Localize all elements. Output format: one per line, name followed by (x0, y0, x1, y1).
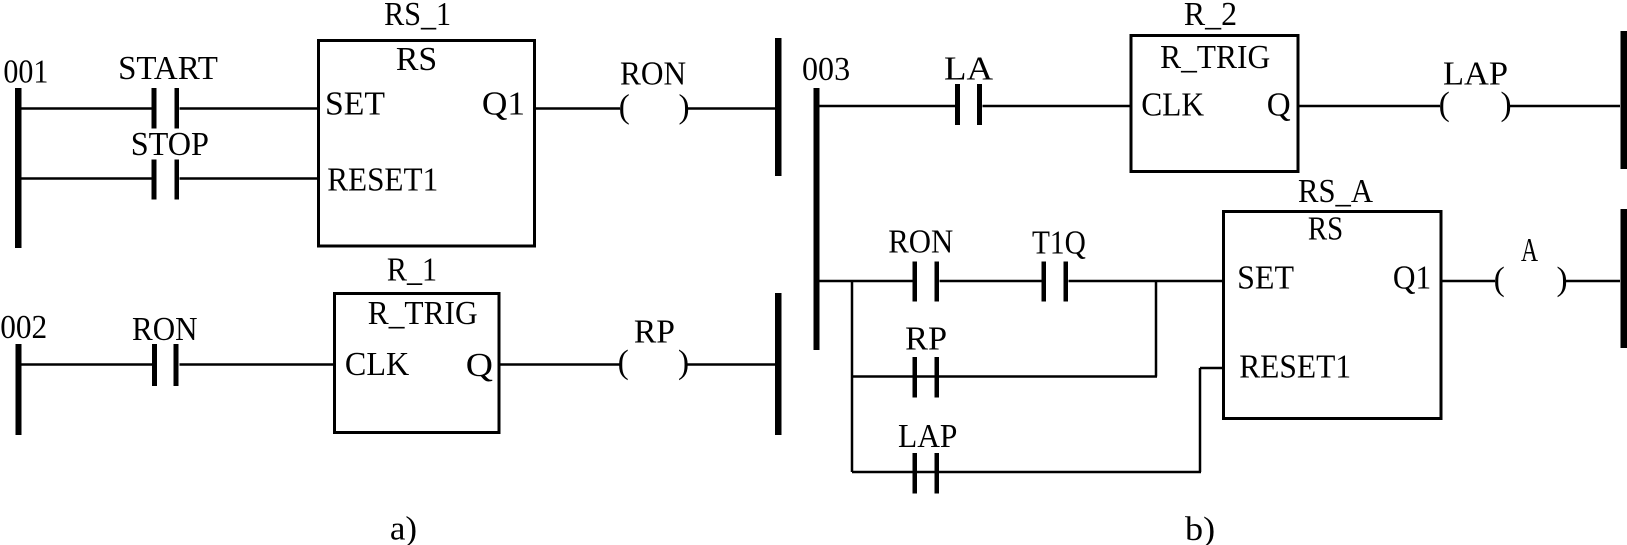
svg-text:RON: RON (888, 224, 953, 261)
svg-text:Q: Q (1267, 87, 1291, 124)
svg-text:Q1: Q1 (1393, 260, 1431, 297)
svg-text:(: ( (1494, 261, 1505, 298)
svg-text:RP: RP (905, 321, 947, 358)
svg-text:RS_A: RS_A (1298, 173, 1373, 210)
svg-text:LAP: LAP (1443, 56, 1508, 93)
svg-text:START: START (118, 50, 218, 87)
svg-text:a): a) (390, 511, 417, 545)
function block R_1 (335, 252, 500, 433)
wire R_2 Q to coil LAP (1299, 105, 1441, 108)
coil RP (618, 314, 690, 382)
function block R_2 (1131, 0, 1298, 172)
wire RS_1 Q1 to coil RON (535, 107, 620, 110)
svg-text:RS: RS (396, 41, 437, 78)
svg-text:): ) (1557, 261, 1568, 298)
svg-text:001: 001 (3, 54, 48, 91)
wire rung 002 rail to RON contact (21, 363, 152, 366)
wire RS_A Q1 to coil A (1442, 280, 1495, 283)
wire STOP to RS_1 RESET1 (180, 177, 319, 180)
wire coil RON to right rail (688, 107, 776, 110)
svg-text:RESET1: RESET1 (327, 162, 438, 199)
svg-text:CLK: CLK (1141, 87, 1204, 124)
svg-text:): ) (679, 89, 690, 126)
contact START (118, 50, 218, 129)
wire rung RS_A SET from rail (819, 280, 913, 283)
wire coil LAP to right rail (1510, 105, 1621, 108)
svg-text:RON: RON (620, 56, 686, 93)
wire LA to R_2 CLK (983, 105, 1132, 108)
wire rung 003 rail to LA (819, 105, 955, 108)
contact LA (944, 51, 993, 126)
svg-text:): ) (678, 344, 689, 381)
wire T1Q to RS_A SET (1069, 280, 1225, 283)
wire to RS_A RESET1 (1200, 367, 1224, 370)
wire RON to R_1 CLK (180, 363, 335, 366)
wire RON to T1Q (940, 280, 1042, 283)
svg-text:T1Q: T1Q (1032, 225, 1086, 262)
svg-text:RS_1: RS_1 (384, 0, 451, 33)
svg-text:b): b) (1185, 511, 1215, 545)
svg-text:SET: SET (1237, 260, 1294, 297)
wire coil A to right rail (1566, 280, 1621, 283)
svg-text:Q: Q (466, 347, 493, 384)
right power rail, network 002 (775, 293, 782, 435)
svg-text:003: 003 (802, 51, 850, 88)
contact RON (b) (888, 224, 953, 302)
svg-text:A: A (1521, 232, 1538, 269)
svg-text:STOP: STOP (131, 126, 209, 163)
junction vertical wire SET to RP rung (1155, 281, 1158, 377)
function block RS_1 (319, 0, 535, 246)
svg-text:R_2: R_2 (1184, 0, 1237, 33)
svg-text:RESET1: RESET1 (1239, 349, 1351, 386)
svg-text:(: ( (618, 344, 629, 381)
svg-text:(: ( (619, 89, 630, 126)
svg-text:RS: RS (1308, 211, 1343, 248)
svg-text:R_TRIG: R_TRIG (368, 295, 478, 332)
left power rail, network 001 (15, 88, 22, 248)
coil LAP (1439, 56, 1512, 124)
svg-text:Q1: Q1 (482, 86, 525, 123)
svg-text:LAP: LAP (898, 418, 957, 455)
wire rung 001 rail to START (21, 107, 152, 110)
contact RP (b) (905, 321, 947, 398)
wire coil RP to right rail (687, 363, 775, 366)
wire rung STOP from rail (21, 177, 152, 180)
svg-text:R_1: R_1 (387, 252, 437, 289)
coil A (1494, 232, 1568, 298)
svg-text:002: 002 (0, 309, 47, 346)
wire RP rung (852, 375, 1157, 378)
svg-text:RON: RON (132, 311, 198, 348)
branch vertical wire (851, 281, 854, 472)
coil RON (619, 56, 690, 126)
left power rail, network 002 (16, 344, 22, 435)
wire START to RS_1 SET (180, 107, 319, 110)
svg-text:RP: RP (634, 314, 675, 351)
wire R_1 Q to coil RP (499, 363, 620, 366)
contact T1Q (1032, 225, 1086, 302)
contact STOP (131, 126, 209, 200)
contact LAP (b) (898, 418, 957, 494)
right power rail, network 003 bottom (1621, 209, 1627, 348)
vertical wire LAP rung to RESET1 (1199, 368, 1202, 472)
svg-text:R_TRIG: R_TRIG (1160, 39, 1270, 76)
wire LAP rung (852, 471, 1201, 474)
svg-text:SET: SET (325, 86, 385, 123)
left power rail, network 003 (814, 88, 820, 350)
right power rail, network 001 (775, 38, 782, 176)
svg-text:CLK: CLK (345, 346, 409, 383)
right power rail, network 003 top (1621, 31, 1627, 169)
svg-text:LA: LA (944, 51, 993, 88)
function block RS_A (1224, 173, 1442, 419)
contact RON (132, 311, 198, 386)
